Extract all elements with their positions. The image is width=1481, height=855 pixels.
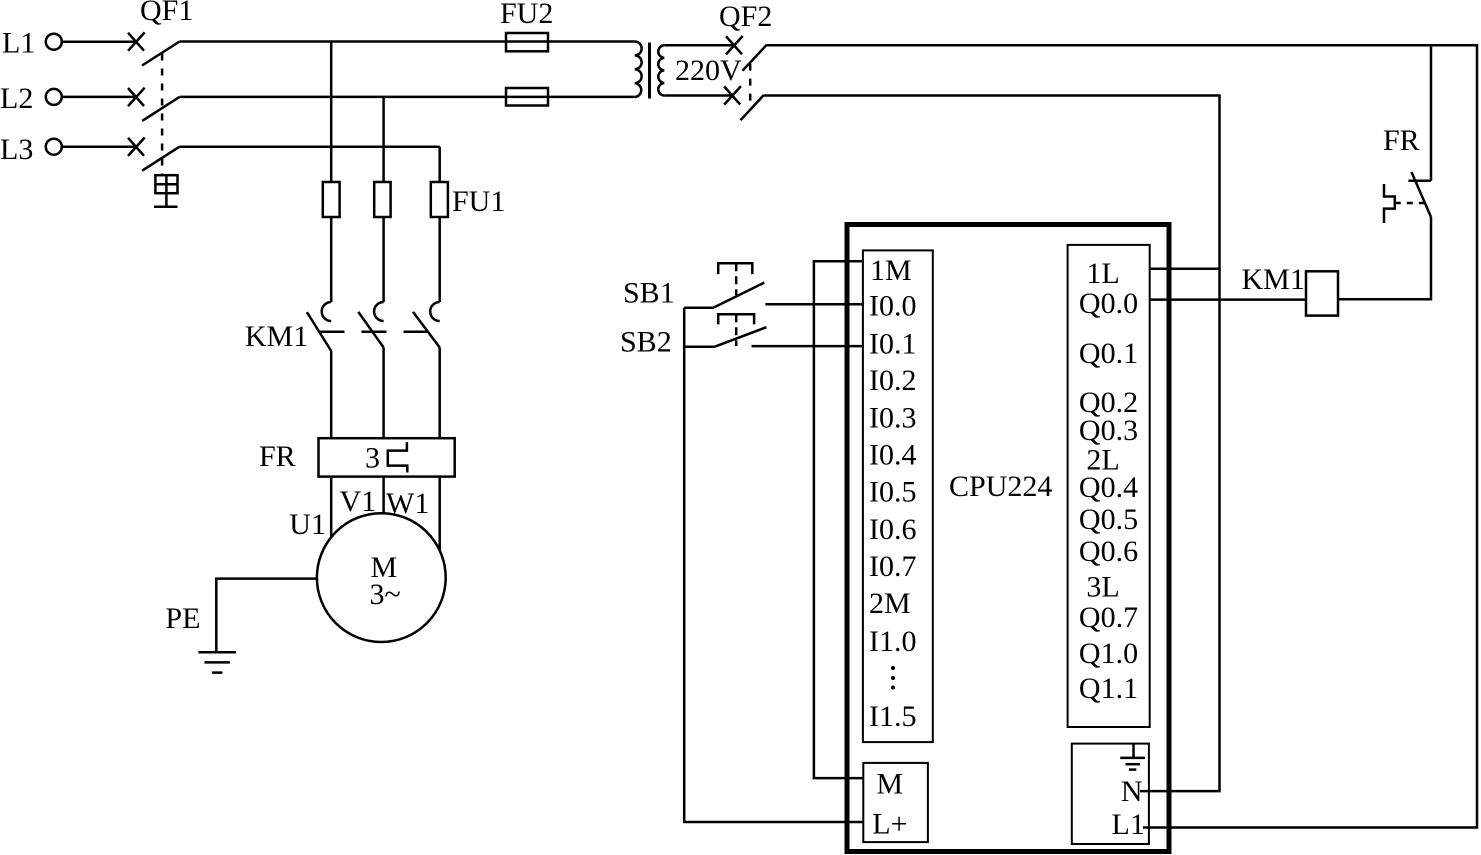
contactor KM1 linkage dashed line — [320, 331, 431, 334]
svg-text:KM1: KM1 — [1242, 263, 1305, 296]
wire KM1 pole 1 to FR box — [330, 351, 333, 438]
terminal circle L2 — [46, 89, 62, 105]
wire bus L2 — [180, 96, 635, 99]
terminal circle L3 — [46, 139, 62, 155]
wire SB1 to I0.0 — [765, 303, 863, 306]
breaker QF2 lower X contact — [724, 86, 741, 104]
breaker QF1 pole 1 blade — [142, 42, 179, 66]
svg-text:2M: 2M — [869, 587, 911, 620]
wire KM1 pole 2 to FR box — [382, 348, 385, 439]
breaker QF2 upper blade — [743, 45, 767, 71]
relay contact FR trip dashed link — [1395, 202, 1424, 205]
svg-text:FR: FR — [259, 440, 296, 473]
svg-text:L3: L3 — [0, 133, 33, 166]
svg-text:1M: 1M — [870, 254, 912, 287]
wire SB chain to L+ — [684, 308, 863, 822]
pushbutton SB1 blade — [714, 283, 764, 308]
svg-text:FU1: FU1 — [452, 185, 505, 218]
PLC output terminal labels — [1079, 257, 1138, 705]
svg-text:Q0.1: Q0.1 — [1079, 337, 1138, 370]
svg-text:Q0.0: Q0.0 — [1079, 287, 1138, 320]
wire FU1 pole 1 to KM1 — [330, 217, 333, 302]
svg-text:L2: L2 — [0, 82, 33, 115]
svg-text:PE: PE — [165, 602, 200, 635]
svg-text:FR: FR — [1383, 124, 1420, 157]
svg-text:SB1: SB1 — [623, 277, 675, 310]
pushbutton SB2 left terminal — [684, 346, 715, 349]
PLC N L1 terminal box — [1072, 744, 1149, 844]
wire L3 drop to FU1 — [438, 147, 441, 182]
PLC M L+ terminal box — [863, 763, 928, 842]
ground symbol PE — [198, 652, 236, 672]
wire L1 drop to FU1 — [330, 42, 333, 183]
wire L2 to QF1 — [62, 96, 137, 99]
transformer T primary winding — [635, 42, 642, 98]
svg-text:KM1: KM1 — [245, 320, 308, 353]
fuse FU1 pole 3 — [431, 182, 448, 217]
PLC input ellipsis dots — [891, 666, 895, 690]
fuse FU1 pole 2 — [374, 182, 390, 217]
svg-text:Q0.6: Q0.6 — [1079, 535, 1138, 568]
svg-text:I0.6: I0.6 — [869, 513, 917, 546]
svg-text:CPU224: CPU224 — [949, 470, 1052, 503]
svg-text:I0.7: I0.7 — [869, 550, 917, 583]
PLC CPU224 outer box — [847, 225, 1169, 852]
contactor KM1 pole 2 blade — [358, 312, 383, 348]
contactor KM1 pole 3 blade — [413, 312, 440, 348]
svg-text:Q0.7: Q0.7 — [1079, 601, 1138, 634]
svg-text:I0.4: I0.4 — [869, 439, 917, 472]
relay contact FR (NC) blade — [1412, 172, 1432, 217]
pushbutton SB2 cap — [718, 314, 754, 324]
wire AC line top — [767, 45, 1477, 827]
wire AC neutral — [764, 96, 1220, 792]
svg-text:N: N — [1121, 775, 1143, 808]
ground symbol in N box — [1120, 744, 1145, 770]
relay contact FR trip actuator — [1384, 184, 1395, 223]
thermal relay FR heater symbol — [388, 442, 408, 472]
breaker QF1 pole 1 X contact — [128, 32, 145, 50]
breaker QF1 pole 3 blade — [142, 147, 179, 171]
contactor KM1 pole 3 fixed arc — [430, 302, 439, 321]
svg-text:U1: U1 — [289, 508, 326, 541]
svg-text:3: 3 — [365, 442, 380, 475]
wire Q0.0 to KM1 coil — [1150, 298, 1306, 301]
wire secondary bottom to QF2 — [664, 94, 732, 97]
wire bus L3 — [180, 145, 440, 148]
contactor KM1 pole 1 fixed arc — [322, 302, 332, 321]
wire V1 to motor — [382, 477, 385, 514]
wire U1 to motor — [330, 477, 333, 537]
terminal circle L1 — [46, 34, 62, 50]
svg-text:FU2: FU2 — [500, 0, 553, 30]
svg-text:I0.1: I0.1 — [869, 328, 917, 361]
svg-text:QF2: QF2 — [719, 0, 772, 33]
wire SB2 to I0.1 — [752, 345, 863, 348]
wire FR to KM1 coil — [1338, 217, 1431, 299]
wire L1 to QF1 — [62, 40, 137, 43]
contactor KM1 pole 1 blade — [307, 312, 331, 351]
wire FU1 pole 2 to KM1 — [382, 217, 385, 302]
breaker QF2 upper X contact — [726, 36, 743, 54]
PLC output terminal box — [1068, 245, 1150, 727]
wire FR branch drop — [1430, 45, 1433, 181]
svg-text:Q1.1: Q1.1 — [1079, 672, 1138, 705]
wire 1M to M loop — [814, 261, 863, 778]
wire W1 to motor — [438, 477, 441, 551]
contactor coil KM1 — [1306, 271, 1338, 315]
fuse FU2 upper — [506, 33, 548, 51]
breaker QF1 pole 2 X contact — [128, 88, 145, 106]
fuse FU2 lower — [506, 88, 548, 106]
pushbutton SB1 stem dashed — [735, 263, 738, 295]
breaker QF2 linkage dashed line — [749, 64, 752, 108]
svg-text:I1.0: I1.0 — [869, 625, 917, 658]
svg-text:I0.2: I0.2 — [869, 364, 917, 397]
svg-text:Q1.0: Q1.0 — [1079, 637, 1138, 670]
svg-text:I0.3: I0.3 — [869, 402, 917, 435]
breaker QF1 linkage dashed line — [161, 54, 164, 176]
PLC input terminal box — [863, 250, 933, 742]
fuse FU1 pole 1 — [323, 182, 340, 217]
svg-text:M: M — [876, 768, 903, 801]
svg-text:1L: 1L — [1086, 257, 1119, 290]
PLC input terminal labels — [869, 254, 917, 733]
motor M circle — [317, 513, 446, 642]
thermal relay FR heater box — [319, 438, 455, 476]
svg-text:3L: 3L — [1086, 571, 1119, 604]
svg-text:L+: L+ — [872, 808, 907, 841]
pushbutton SB2 stem dashed — [735, 314, 738, 346]
svg-text:Q0.3: Q0.3 — [1079, 414, 1138, 447]
svg-text:3~: 3~ — [370, 578, 401, 611]
svg-text:Q0.5: Q0.5 — [1079, 503, 1138, 536]
svg-text:QF1: QF1 — [140, 0, 193, 27]
svg-text:L1: L1 — [1112, 808, 1145, 841]
svg-text:Q0.4: Q0.4 — [1079, 471, 1138, 504]
breaker QF1 operator box — [154, 175, 178, 207]
svg-text:I0.5: I0.5 — [869, 476, 917, 509]
wire secondary top to QF2 — [664, 44, 734, 47]
breaker QF2 lower blade — [741, 95, 764, 120]
svg-text:220V: 220V — [675, 54, 742, 87]
pushbutton SB2 blade — [715, 327, 766, 346]
breaker QF1 pole 3 X contact — [128, 138, 145, 156]
svg-text:SB2: SB2 — [620, 326, 672, 359]
wire L3 to QF1 — [62, 145, 137, 148]
transformer T secondary winding — [658, 45, 664, 95]
pushbutton SB1 left terminal — [684, 307, 714, 310]
svg-text:I0.0: I0.0 — [869, 290, 917, 323]
breaker QF1 pole 2 blade — [142, 97, 179, 121]
wire PE to motor — [216, 579, 317, 653]
svg-text:I1.5: I1.5 — [869, 700, 917, 733]
svg-text:L1: L1 — [2, 27, 35, 60]
wire KM1 pole 3 to FR box — [438, 348, 441, 439]
relay contact FR (NC) terminal bar — [1408, 180, 1431, 183]
transformer T core — [648, 43, 651, 99]
wire bus L1 — [180, 40, 635, 43]
wire 1L to neutral — [1150, 268, 1220, 271]
wire FU1 pole 3 to KM1 — [438, 217, 441, 302]
wire L2 drop to FU1 — [382, 97, 385, 182]
contactor KM1 pole 2 fixed arc — [374, 302, 384, 321]
pushbutton SB1 cap — [718, 263, 752, 274]
